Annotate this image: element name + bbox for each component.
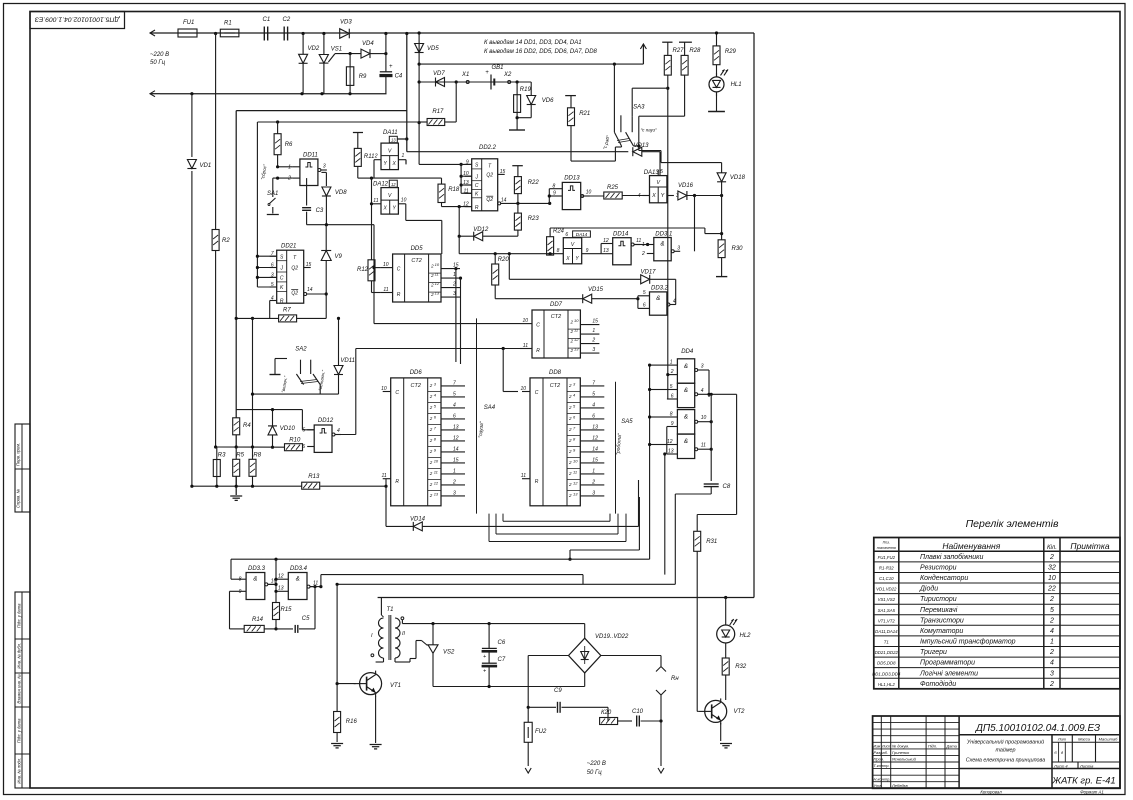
svg-text:4: 4 [1050,628,1054,635]
svg-text:CT2: CT2 [411,258,421,264]
svg-text:J: J [279,266,283,272]
svg-text:R18: R18 [448,187,460,193]
svg-text:Кіл.: Кіл. [1047,545,1057,551]
svg-text:X1: X1 [461,72,469,78]
svg-text:VS1: VS1 [331,47,342,53]
svg-text:R19: R19 [520,87,532,93]
svg-text:C5: C5 [302,616,310,622]
svg-text:13: 13 [434,491,439,496]
svg-text:Перв. прим.: Перв. прим. [16,443,21,466]
svg-text:"отключ.": "отключ." [318,369,327,391]
svg-text:VD13: VD13 [634,143,650,149]
svg-text:2: 2 [568,460,572,465]
svg-text:3: 3 [453,490,456,496]
svg-text:1: 1 [592,468,595,474]
svg-text:6: 6 [592,413,595,419]
svg-text:2: 2 [568,493,572,498]
svg-text:11: 11 [434,469,438,474]
svg-text:К20: К20 [601,710,612,716]
svg-text:SA3: SA3 [633,105,645,111]
svg-text:6: 6 [453,413,456,419]
svg-text:FU1: FU1 [183,20,194,26]
svg-text:Масштаб: Масштаб [1099,737,1118,742]
svg-text:VD6: VD6 [542,98,554,104]
svg-text:VD10: VD10 [280,426,296,432]
svg-text:Яснельський: Яснельський [891,757,917,762]
svg-text:DD13: DD13 [564,176,580,182]
svg-text:GB1: GB1 [492,65,504,71]
svg-text:12: 12 [278,574,284,580]
svg-text:DA14: DA14 [576,232,588,237]
svg-text:R17: R17 [432,109,444,115]
svg-text:C9: C9 [554,688,562,694]
svg-text:6: 6 [302,444,305,450]
svg-text:Дата: Дата [946,743,958,748]
svg-text:таймер: таймер [995,747,1015,754]
svg-text:7: 7 [592,380,595,386]
svg-text:2: 2 [670,369,674,375]
svg-text:11: 11 [523,343,528,349]
svg-text:Т.контр.: Т.контр. [874,763,890,768]
svg-text:15: 15 [592,319,598,325]
svg-text:VD2: VD2 [308,46,320,52]
svg-text:R29: R29 [725,49,737,55]
svg-text:T1: T1 [884,640,890,645]
svg-text:5: 5 [1050,607,1054,614]
svg-text:2: 2 [570,320,574,325]
svg-text:9: 9 [239,589,242,595]
svg-text:6: 6 [643,303,646,309]
svg-text:DD5: DD5 [411,246,424,252]
svg-text:2: 2 [570,329,574,334]
svg-text:R31: R31 [706,539,717,545]
svg-text:X: X [383,206,388,212]
svg-text:1: 1 [670,360,673,366]
svg-text:Инв. № дубл.: Инв. № дубл. [17,643,22,669]
svg-text:&: & [684,388,688,394]
svg-text:VT1,VT2: VT1,VT2 [878,618,896,623]
svg-text:Імпульсний трансформатор: Імпульсний трансформатор [920,638,1016,646]
svg-text:+: + [483,669,487,675]
svg-text:C1: C1 [263,17,271,23]
svg-text:R30: R30 [732,246,744,252]
svg-text:К выводам 16 DD2, DD5, DD6, DA: К выводам 16 DD2, DD5, DD6, DA7, DD8 [484,49,598,55]
svg-text:II: II [402,631,406,637]
svg-text:3: 3 [592,347,595,353]
svg-text:Разраб.: Разраб. [874,750,888,755]
svg-text:2: 2 [430,264,434,269]
svg-text:10: 10 [574,318,579,323]
svg-text:VD16: VD16 [678,183,694,189]
svg-text:10: 10 [586,190,592,196]
svg-text:50 Гц: 50 Гц [150,60,166,66]
svg-text:DD3.2: DD3.2 [651,286,669,292]
svg-text:7: 7 [573,425,576,430]
svg-text:R: R [280,299,284,305]
svg-text:HL1,HL2: HL1,HL2 [878,682,896,687]
svg-text:6: 6 [271,263,274,269]
svg-text:13: 13 [574,347,579,352]
svg-text:22: 22 [1047,586,1056,593]
svg-text:C: C [397,267,401,273]
svg-text:2: 2 [429,405,433,410]
svg-text:"робота": "робота" [615,433,623,455]
svg-text:№ докум.: № докум. [892,743,909,748]
svg-text:2: 2 [429,482,433,487]
svg-text:DD6: DD6 [410,370,423,376]
svg-text:C10: C10 [632,709,644,715]
svg-text:12: 12 [434,480,439,485]
svg-text:R9: R9 [359,74,367,80]
svg-text:11: 11 [435,272,439,277]
svg-text:Підп. у дата: Підп. у дата [17,718,22,743]
svg-text:3: 3 [1050,670,1054,677]
svg-text:12: 12 [592,435,598,441]
svg-text:12: 12 [435,281,440,286]
svg-text:T: T [488,164,492,170]
svg-text:4: 4 [271,296,274,302]
svg-text:10: 10 [435,262,440,267]
svg-text:+: + [483,654,487,660]
svg-text:R5: R5 [236,453,244,459]
svg-text:R11: R11 [364,154,375,160]
svg-text:DD3.4: DD3.4 [290,566,308,572]
svg-text:C4: C4 [395,74,403,80]
svg-text:14: 14 [501,197,507,203]
svg-text:1: 1 [453,272,456,278]
svg-text:2: 2 [1049,617,1054,624]
svg-text:4: 4 [673,299,676,305]
svg-text:VD12: VD12 [473,227,489,233]
svg-text:Підп. у дата: Підп. у дата [17,603,22,628]
svg-text:C: C [535,390,539,396]
svg-text:C1,C10: C1,C10 [879,576,894,581]
svg-text:J: J [474,174,478,180]
svg-text:R2: R2 [222,238,230,244]
svg-text:VD5: VD5 [427,46,439,52]
svg-text:Тиристори: Тиристори [920,596,957,603]
svg-text:R15: R15 [281,607,293,613]
svg-text:K: K [475,192,479,198]
svg-text:11: 11 [574,328,578,333]
svg-text:+: + [389,64,393,70]
svg-text:Лебедєв: Лебедєв [891,783,908,788]
svg-text:Пров.: Пров. [874,757,885,762]
svg-text:VD4: VD4 [362,41,374,47]
svg-text:VD19..VD22: VD19..VD22 [595,634,629,640]
svg-text:2: 2 [429,427,433,432]
svg-text:15: 15 [500,169,506,175]
svg-text:DA13: DA13 [644,170,660,176]
svg-text:13: 13 [453,424,459,430]
svg-text:11: 11 [573,469,577,474]
svg-text:K: K [280,285,284,291]
svg-text:R7: R7 [283,308,291,314]
svg-text:Резистори: Резистори [920,565,957,572]
svg-text:Діоди: Діоди [919,585,938,593]
svg-text:1: 1 [642,242,645,248]
svg-text:SA1,SA5: SA1,SA5 [878,608,896,613]
svg-text:Н.контр.: Н.контр. [874,776,891,781]
svg-text:FU2: FU2 [535,729,547,735]
svg-text:&: & [684,415,688,421]
svg-text:DA11: DA11 [383,130,398,136]
svg-text:Лист: Лист [881,744,891,748]
svg-text:2: 2 [429,471,433,476]
svg-text:V: V [571,242,575,248]
svg-text:T: T [293,255,297,261]
svg-text:13: 13 [603,248,609,254]
svg-text:10: 10 [701,415,707,421]
svg-text:VT2: VT2 [734,709,746,715]
svg-text:HL1: HL1 [731,82,742,88]
svg-text:DD21,DD22: DD21,DD22 [875,650,899,655]
svg-text:12: 12 [574,337,579,342]
svg-text:Формат А1: Формат А1 [1080,790,1104,795]
svg-text:13: 13 [435,291,440,296]
svg-text:T1: T1 [387,607,394,613]
svg-text:6: 6 [434,414,437,419]
svg-text:"включ.": "включ." [281,375,289,393]
svg-text:2: 2 [591,479,595,485]
svg-text:13: 13 [668,449,674,455]
svg-text:SA2: SA2 [295,347,307,353]
svg-text:DD2.2: DD2.2 [479,145,497,151]
svg-text:3: 3 [573,381,576,386]
svg-text:12: 12 [391,182,396,187]
svg-text:VD7: VD7 [433,71,445,77]
svg-text:~220 В: ~220 В [587,761,606,767]
svg-text:R16: R16 [346,719,358,725]
svg-text:13: 13 [391,138,396,143]
svg-text:Rн: Rн [671,676,679,682]
svg-text:Листів: Листів [1079,763,1093,768]
svg-text:C6: C6 [498,640,506,646]
svg-text:2: 2 [591,338,595,344]
svg-text:DD12: DD12 [318,418,334,424]
svg-text:Y: Y [661,193,665,199]
svg-text:DD3.3: DD3.3 [248,566,266,572]
svg-text:3: 3 [592,490,595,496]
svg-text:C7: C7 [498,657,506,663]
svg-text:SA4: SA4 [484,405,496,411]
svg-text:2: 2 [570,339,574,344]
svg-text:X: X [565,256,570,262]
svg-text:Лит: Лит [1057,737,1067,742]
svg-text:32: 32 [1048,565,1056,572]
svg-text:R24: R24 [553,229,565,235]
svg-text:R22: R22 [528,180,540,186]
svg-text:DD11: DD11 [303,153,318,159]
svg-text:2: 2 [570,348,574,353]
svg-text:б: б [1054,750,1057,755]
svg-text:"пауза": "пауза" [478,421,485,438]
svg-text:Плавкі запобіжники: Плавкі запобіжники [920,553,983,561]
svg-text:2: 2 [429,449,433,454]
svg-text:5: 5 [643,290,646,296]
svg-text:I: I [371,633,373,639]
svg-text:Конденсатори: Конденсатори [920,574,968,582]
svg-text:C2: C2 [283,17,291,23]
svg-text:3: 3 [453,291,456,297]
svg-text:Гриненко: Гриненко [892,750,910,755]
svg-text:6: 6 [671,394,674,400]
svg-text:R10: R10 [289,438,301,444]
svg-text:C: C [395,390,399,396]
svg-text:7: 7 [434,425,437,430]
svg-text:Перемикачі: Перемикачі [920,606,958,614]
svg-text:7: 7 [271,251,274,257]
svg-text:DA12: DA12 [373,181,389,187]
svg-text:8: 8 [573,436,576,441]
svg-text:5: 5 [453,391,456,397]
svg-text:3: 3 [271,272,274,278]
svg-text:Схема електрична принципова: Схема електрична принципова [966,758,1045,764]
svg-text:Фотодіоди: Фотодіоди [920,680,956,688]
svg-text:10: 10 [381,386,387,392]
svg-text:2: 2 [1049,554,1054,561]
svg-text:Q2: Q2 [291,266,298,272]
svg-text:V: V [656,180,661,186]
svg-text:R4: R4 [243,423,251,429]
svg-text:6: 6 [573,414,576,419]
svg-text:VS2: VS2 [443,650,455,656]
svg-text:5: 5 [592,391,595,397]
svg-text:Q2: Q2 [486,172,493,178]
svg-text:1: 1 [402,153,405,159]
svg-text:Комутатори: Комутатори [920,628,963,635]
svg-text:15: 15 [453,457,459,463]
svg-text:"с пауз": "с пауз" [641,128,658,133]
svg-text:~220 В: ~220 В [150,52,169,58]
svg-text:DD7: DD7 [550,302,563,308]
svg-text:&: & [656,296,660,302]
svg-text:15: 15 [453,263,459,269]
svg-text:Логічні элементи: Логічні элементи [919,669,978,677]
svg-text:R: R [535,479,539,485]
svg-text:R8: R8 [253,453,261,459]
svg-text:13: 13 [573,491,578,496]
svg-text:2: 2 [452,282,456,288]
svg-text:DD8: DD8 [549,370,562,376]
svg-text:10: 10 [401,197,407,203]
svg-text:2: 2 [568,427,572,432]
svg-text:12: 12 [667,439,673,445]
svg-text:VD17: VD17 [641,270,657,276]
svg-text:9: 9 [671,421,674,427]
svg-text:C3: C3 [316,208,324,214]
svg-text:Утв.: Утв. [874,783,883,788]
svg-text:2: 2 [1049,649,1054,656]
svg-text:1: 1 [592,328,595,334]
svg-text:VS1,VS2: VS1,VS2 [878,597,896,602]
svg-text:R: R [395,479,399,485]
svg-text:Поз.: Поз. [883,541,890,545]
svg-text:9: 9 [586,248,589,254]
svg-text:CT2: CT2 [550,383,560,389]
svg-text:Взамен инв. №: Взамен инв. № [16,674,21,704]
svg-text:4: 4 [638,193,641,199]
svg-text:2: 2 [429,383,433,388]
svg-text:11: 11 [373,198,378,204]
svg-text:2: 2 [429,394,433,399]
svg-text:2: 2 [429,416,433,421]
svg-text:2: 2 [568,471,572,476]
svg-text:Лист 4: Лист 4 [1053,763,1068,768]
svg-text:9: 9 [553,191,556,197]
svg-text:Справ. №: Справ. № [16,489,21,508]
svg-text:14: 14 [307,287,313,293]
svg-text:VD11: VD11 [340,358,355,364]
svg-text:2: 2 [430,292,434,297]
svg-text:2: 2 [568,394,572,399]
svg-text:7: 7 [453,380,456,386]
svg-text:HL2: HL2 [740,633,752,639]
svg-text:R: R [397,292,401,298]
svg-text:Y: Y [384,161,388,167]
svg-text:К выводам 14 DD1, DD3, DD4, DA: К выводам 14 DD1, DD3, DD4, DA1 [484,40,582,46]
svg-text:1: 1 [1050,639,1054,646]
svg-text:4: 4 [701,388,704,394]
svg-text:Масса: Масса [1078,737,1091,742]
svg-text:FU1,FU2: FU1,FU2 [878,555,896,560]
svg-text:R: R [475,205,479,211]
svg-text:4: 4 [434,392,437,397]
svg-text:R1: R1 [224,21,232,27]
svg-text:C: C [280,276,284,282]
svg-text:8: 8 [557,248,560,254]
svg-text:R6: R6 [285,142,293,148]
svg-text:8: 8 [670,412,673,418]
svg-text:&: & [296,577,300,583]
svg-text:DA11,DA14: DA11,DA14 [875,629,898,634]
svg-text:14: 14 [453,446,459,452]
svg-text:R23: R23 [528,216,540,222]
svg-text:12: 12 [453,435,459,441]
svg-text:X: X [651,193,656,199]
svg-text:2: 2 [568,438,572,443]
svg-text:2: 2 [430,273,434,278]
svg-text:8: 8 [434,436,437,441]
svg-text:11: 11 [636,238,641,244]
svg-text:V: V [388,193,392,199]
svg-text:R27: R27 [673,48,685,54]
svg-text:2: 2 [429,438,433,443]
svg-text:"сброс": "сброс" [260,164,268,181]
svg-text:VD1,VD22: VD1,VD22 [876,587,897,592]
svg-text:Тригери: Тригери [920,649,947,656]
svg-text:2: 2 [568,416,572,421]
svg-text:SA5: SA5 [621,419,633,425]
svg-text:9: 9 [434,447,437,452]
svg-text:R3: R3 [218,453,226,459]
svg-text:R13: R13 [308,474,320,480]
svg-text:10: 10 [434,458,439,463]
svg-text:2: 2 [430,283,434,288]
svg-text:2: 2 [429,460,433,465]
svg-text:R1-R32: R1-R32 [879,566,894,571]
svg-text:4: 4 [592,402,595,408]
svg-text:д: д [1061,750,1064,755]
svg-text:&: & [660,242,664,248]
svg-text:12: 12 [573,480,578,485]
svg-text:CT2: CT2 [551,314,561,320]
svg-text:Инв. № подл.: Инв. № подл. [17,758,22,784]
svg-text:DD4: DD4 [681,349,694,355]
svg-text:Q2: Q2 [486,197,493,203]
svg-text:2: 2 [568,405,572,410]
svg-text:3: 3 [434,381,437,386]
